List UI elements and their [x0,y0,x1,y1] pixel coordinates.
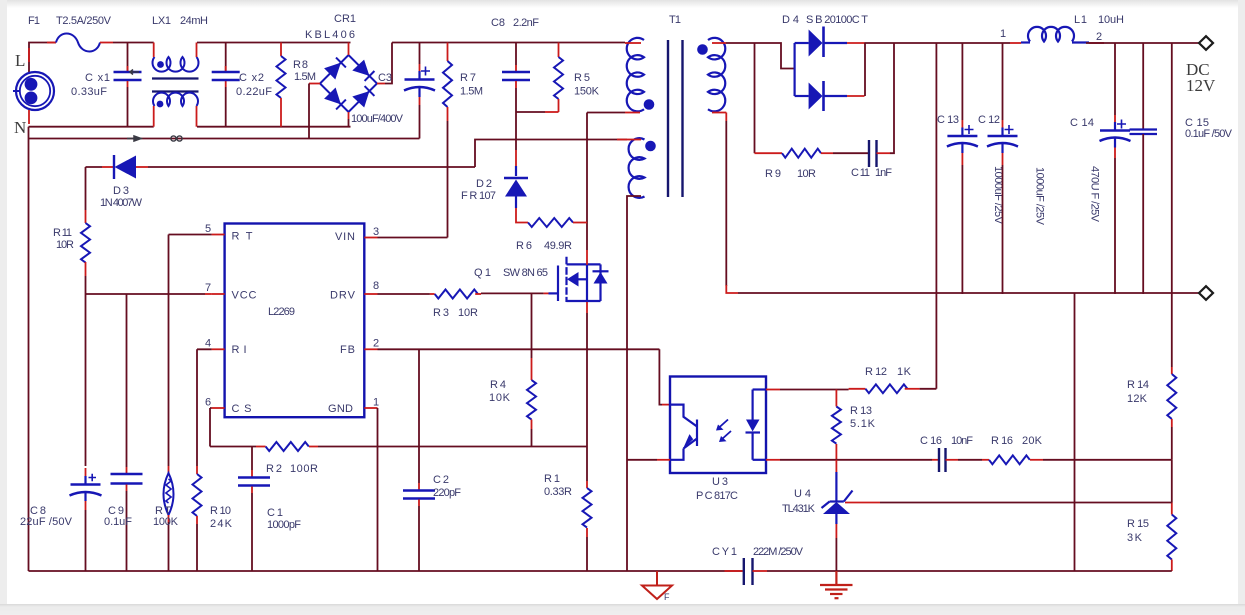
svg-text:C 14: C 14 [1070,117,1094,129]
pin stub RI(4) [212,348,225,350]
wire: bridge top stub [348,43,350,56]
wire: bridge bottom stub [348,112,350,119]
svg-text:12V: 12V [1186,76,1216,95]
diode D3 [86,155,476,179]
svg-text:10K: 10K [489,392,511,404]
svg-text:G N D: G N D [328,403,353,415]
capacitor C12 [987,43,1018,294]
CR1 diode bottom-left [324,88,346,110]
svg-text:49.9R: 49.9R [544,240,572,252]
svg-text:10R: 10R [458,307,478,319]
wire: R5 bottom link to C8 vertical [516,111,545,113]
svg-text:C x1: C x1 [85,72,110,84]
svg-text:0.1uF: 0.1uF [104,516,132,528]
svg-text:R 6: R 6 [516,240,532,252]
wire: C8 bottom vertical down to D2 cathode [515,88,517,150]
svg-text:1K: 1K [897,366,912,378]
svg-text:R 4: R 4 [490,379,506,391]
wire: drain up to R6 junction and primary bottom [586,113,588,251]
svg-text:R 13: R 13 [850,405,872,417]
svg-text:7: 7 [205,282,211,294]
svg-text:12K: 12K [1127,393,1148,405]
transformer T1 secondary winding [697,38,725,111]
svg-text:0.1uF /50V: 0.1uF /50V [1185,128,1233,140]
transformer T1 primary winding [627,38,655,111]
svg-text:Q 1: Q 1 [474,267,491,279]
shunt regulator U4 TL431 [822,460,853,524]
svg-text:F: F [664,592,670,602]
svg-text:L2269: L2269 [268,306,295,318]
wire: LED anode wire to R12/R13 [766,389,780,391]
U3 LED [746,390,767,460]
svg-text:10R: 10R [56,239,74,251]
ground primary (triangle) [642,571,672,599]
wire: pin3 to R7 vertical [378,237,448,239]
CR1 diode top-left [324,58,346,80]
wire: FB corner down to optocoupler collector [659,349,662,404]
wire: bridge left vertex to DC- drop [309,83,320,85]
svg-text:R 11: R 11 [53,227,72,239]
svg-text:C 13: C 13 [937,114,959,126]
svg-text:C 12: C 12 [978,114,1000,126]
wire: output rail L1 to terminal [1086,42,1199,44]
svg-text:LX1: LX1 [152,15,171,27]
svg-text:D 4: D 4 [782,14,799,26]
wire: red stub fuse left [47,42,56,44]
svg-text:R 5: R 5 [574,72,590,84]
svg-text:R 9: R 9 [765,168,781,180]
diode D2 [504,166,528,223]
resistor R14 divider top [1167,43,1176,460]
svg-text:100uF/400V: 100uF/400V [351,113,404,125]
inductor LX1 bottom winding [153,93,198,108]
bottom rail primary side [29,570,743,572]
svg-text:8: 8 [373,280,379,292]
capacitor C9 [111,294,143,571]
capacitor Cx2 [212,72,240,80]
svg-text:100K: 100K [153,516,179,528]
svg-text:V C C: V C C [232,290,257,302]
svg-text:222M /250V: 222M /250V [753,546,804,558]
svg-text:5: 5 [205,223,211,235]
svg-text:C 1: C 1 [267,507,283,519]
svg-text:220pF: 220pF [433,487,461,499]
bridge rectifier CR1 diamond [320,55,377,112]
wire: bus to bottom rail vertical [1074,293,1076,571]
svg-text:R 14: R 14 [1127,379,1149,391]
wire: primary top stub [625,42,641,44]
svg-text:3: 3 [373,226,379,238]
wire: R7 bottom down to VIN wire [447,121,449,238]
svg-text:0.33R: 0.33R [544,486,572,498]
inductor L1 [1021,27,1089,43]
wire: VCC horizontal [86,293,206,295]
inductor LX1 common-mode choke top winding [152,57,198,72]
svg-text:SW 8N 65: SW 8N 65 [503,267,548,279]
U3 phototransistor [670,405,697,460]
wire: bridge right vertex to riser [377,83,385,85]
capacitor C1 [238,447,270,572]
svg-text:C Y 1: C Y 1 [712,546,737,558]
resistor R6 [528,218,587,227]
wire: FB net horizontal to optocoupler [378,348,660,350]
svg-text:R 12: R 12 [865,366,887,378]
label Cx2 [236,72,272,98]
wire: D3 cathode corner down to R11 [85,167,87,210]
resistor R16 [982,455,1172,464]
svg-text:VIN: VIN [335,231,355,243]
page right band [1238,0,1245,615]
svg-text:10nF: 10nF [951,435,973,447]
wire: R3 to Q1 gate [481,292,544,294]
wire: pin4 to R10 drop [197,349,212,466]
marker circles on DC- wire [171,136,182,141]
svg-text:C 11: C 11 [851,167,870,179]
label Cx1 [71,72,110,98]
wire: D4 output node drop to R12 [935,43,937,389]
capacitor C8 2.2nF [502,43,530,89]
svg-text:R 1: R 1 [544,473,560,485]
resistor R5 [554,43,563,113]
resistor R15 divider bottom [1167,460,1176,571]
svg-text:TL431K: TL431K [782,503,816,515]
resistor R4 [527,294,536,447]
wire: Q1 source stub [586,302,588,313]
capacitor C14 [1100,43,1131,294]
svg-text:1nF: 1nF [875,167,892,179]
wire: left vertical bus from N down to bottom rail [28,127,30,571]
svg-text:C 8: C 8 [491,17,505,29]
capacitor CY1 [725,558,768,585]
svg-text:4: 4 [205,338,211,350]
svg-text:R 10: R 10 [210,505,231,517]
resistor R1 [583,447,592,572]
wire: red stub plug top [28,48,30,62]
wire: GND pin down to bottom rail [377,408,379,571]
resistor R13 [832,390,841,460]
wire: red stubs choke to rails [154,43,197,127]
wire: AC top rail from plug to fuse [29,43,56,73]
wire: N rail choke to bridge bottom [197,126,351,128]
svg-text:S B 20100C T: S B 20100C T [806,14,868,26]
wire: aux top stub [627,139,641,141]
svg-text:R T: R T [232,231,253,243]
marker small arrow near Cx1 top [130,70,139,75]
wire: aux bottom to left and down [627,196,641,571]
wire: Cx2 stubs [225,43,227,72]
svg-text:24mH: 24mH [180,15,208,27]
svg-text:3K: 3K [1127,532,1143,544]
svg-text:0.22uF: 0.22uF [236,86,272,98]
svg-text:C R 1: C R 1 [334,13,356,25]
svg-text:2.2nF: 2.2nF [513,17,539,29]
wire: primary bottom to drain riser [625,112,640,114]
T1 core lines [668,40,683,197]
svg-text:T2.5A/250V: T2.5A/250V [56,15,112,27]
wire: Cx1 bottom to N rail [127,81,129,87]
resistor R8 [277,43,286,127]
wire: TL431 ref to divider tap [845,502,880,504]
svg-text:2: 2 [1096,31,1102,43]
CR1 diode bottom-right [352,86,374,107]
svg-text:R 15: R 15 [1127,518,1149,530]
resistor R12 [849,384,937,393]
svg-text:C 3: C 3 [378,72,392,84]
resistor R11 [81,210,90,276]
transistor Q1 MOSFET [558,257,609,302]
svg-text:1N 4007W: 1N 4007W [100,197,143,209]
capacitor C2 [403,349,435,571]
wire: red stub L1 left [1010,42,1021,44]
svg-text:1: 1 [373,397,379,409]
capacitor C15 [1130,43,1158,294]
wire: pin5 to RT thermistor drop [169,235,212,467]
svg-text:20K: 20K [1022,435,1043,447]
svg-text:10uH: 10uH [1098,14,1124,26]
wire: plug bottom to N rail red [28,110,30,124]
svg-text:R I: R I [232,344,247,356]
pin stub RT(5) [212,234,225,236]
pin stub DRV(8) [364,293,377,295]
svg-text:F R 107: F R 107 [461,190,496,202]
wire: DC+ rail from bridge to transformer primary [392,42,625,44]
wire: pin8 to R3 [378,293,430,295]
svg-text:470U F /25V: 470U F /25V [1089,166,1101,223]
IC U1 L2269 box [225,224,365,418]
wire: secondary top stub to D4 [712,42,726,44]
svg-text:C x2: C x2 [239,72,264,84]
capacitor C8 electrolytic bottom-left [70,468,102,571]
svg-text:R 16: R 16 [991,435,1013,447]
resistor R9 snubber [755,149,869,158]
svg-text:U 3: U 3 [712,476,728,488]
CR1 diode top-right [352,60,374,81]
U3 light arrows [716,420,731,443]
wire: R11 bottom to VCC rail and down to C8 bottom-left cap [85,276,87,466]
wire: source down to CS net [586,313,588,447]
svg-text:24K: 24K [210,518,233,530]
diode D4 upper [755,27,865,154]
svg-text:R 8: R 8 [293,59,308,71]
svg-text:R 7: R 7 [460,72,476,84]
svg-text:L1: L1 [1074,14,1087,26]
resistor R3 [430,290,481,299]
svg-text:R 3: R 3 [433,307,449,319]
bottom rail secondary side [767,570,1172,572]
page left band [0,0,7,615]
svg-text:22uF /50V: 22uF /50V [20,516,73,528]
capacitor C11 [869,43,894,167]
page top shadow [0,0,1245,8]
svg-text:6: 6 [205,397,211,409]
svg-text:P C 817C: P C 817C [696,490,738,502]
optocoupler U3 box [670,377,766,474]
pin stub VCC(7) [212,293,225,295]
svg-text:N: N [14,118,26,137]
thermistor RT [164,466,174,571]
svg-text:1.5M: 1.5M [460,86,483,98]
wire: top rail choke to bridge top [197,42,351,44]
wire: pin6 left and down to CS net [210,408,212,447]
svg-text:L: L [15,51,25,70]
capacitor C16 [932,448,982,472]
wire: Q1 drain stub [586,250,588,265]
wire: secondary ground bus [738,292,1199,294]
wire: emitter to primary aux ground [657,459,670,461]
terminal DC+ diamond [1199,36,1213,50]
wire: N rail plug to choke [29,126,154,128]
svg-text:C S: C S [232,403,252,415]
terminal DC- diamond [1199,286,1213,300]
wire: D3 aux link up and right to aux winding [475,140,627,168]
wire: LED cathode net y461 [766,459,780,461]
svg-text:10R: 10R [797,168,816,180]
plug symbol (AC inlet) [13,72,54,110]
wire: red stub L1 right [1089,42,1104,44]
wire: DC- horizontal y138.5 from left bus to C3 [29,138,420,140]
svg-text:1000uF /25V: 1000uF /25V [1034,167,1046,226]
svg-text:C 16: C 16 [920,435,942,447]
svg-text:F 1: F 1 [28,15,40,27]
svg-text:1000pF: 1000pF [267,519,301,531]
fuse F1 [56,34,100,52]
pin stub GND(1) [364,407,377,409]
svg-text:0.33uF: 0.33uF [71,86,107,98]
pin stub FB(2) [364,348,377,350]
svg-text:T1: T1 [669,14,681,26]
svg-text:2: 2 [373,338,379,350]
resistor R2 [266,442,587,451]
svg-text:C 2: C 2 [433,474,449,486]
diode D4 lower [795,43,865,111]
capacitor C3 electrolytic [404,43,435,139]
page bottom band [0,604,1245,615]
capacitor C13 [947,43,978,294]
marker arrow on DC- wire [127,136,141,141]
pin stub CS(6) [212,407,225,409]
svg-text:F B: F B [340,344,355,356]
svg-text:1.5M: 1.5M [294,71,316,83]
svg-text:R 2: R 2 [266,463,282,475]
svg-text:D 2: D 2 [476,178,492,190]
svg-text:5.1K: 5.1K [850,418,876,430]
svg-text:1: 1 [1000,28,1006,40]
resistor R7 [443,43,452,122]
wire: red stub into Cx1 top [127,43,129,72]
wire: top rail fuse to choke [113,42,154,44]
wire: red stub fuse right [100,42,113,44]
capacitor Cx1 [114,72,142,80]
ground secondary (earth) [820,571,853,598]
wire: secondary bottom to output return [712,112,726,114]
svg-text:100R: 100R [290,463,318,475]
svg-text:U 4: U 4 [794,488,811,500]
svg-text:150K: 150K [574,86,600,98]
wire: CS net horizontal [210,446,256,448]
wire: TL431 anode down [835,524,837,538]
svg-text:D R V: D R V [330,290,356,302]
svg-text:D 3: D 3 [113,185,129,197]
pin stub VIN(3) [364,237,377,239]
transformer T1 aux winding [629,138,656,198]
wire: output rail D4 to L1 [865,42,1011,44]
LX1 core lines [152,79,199,92]
resistor R10 [193,466,202,571]
